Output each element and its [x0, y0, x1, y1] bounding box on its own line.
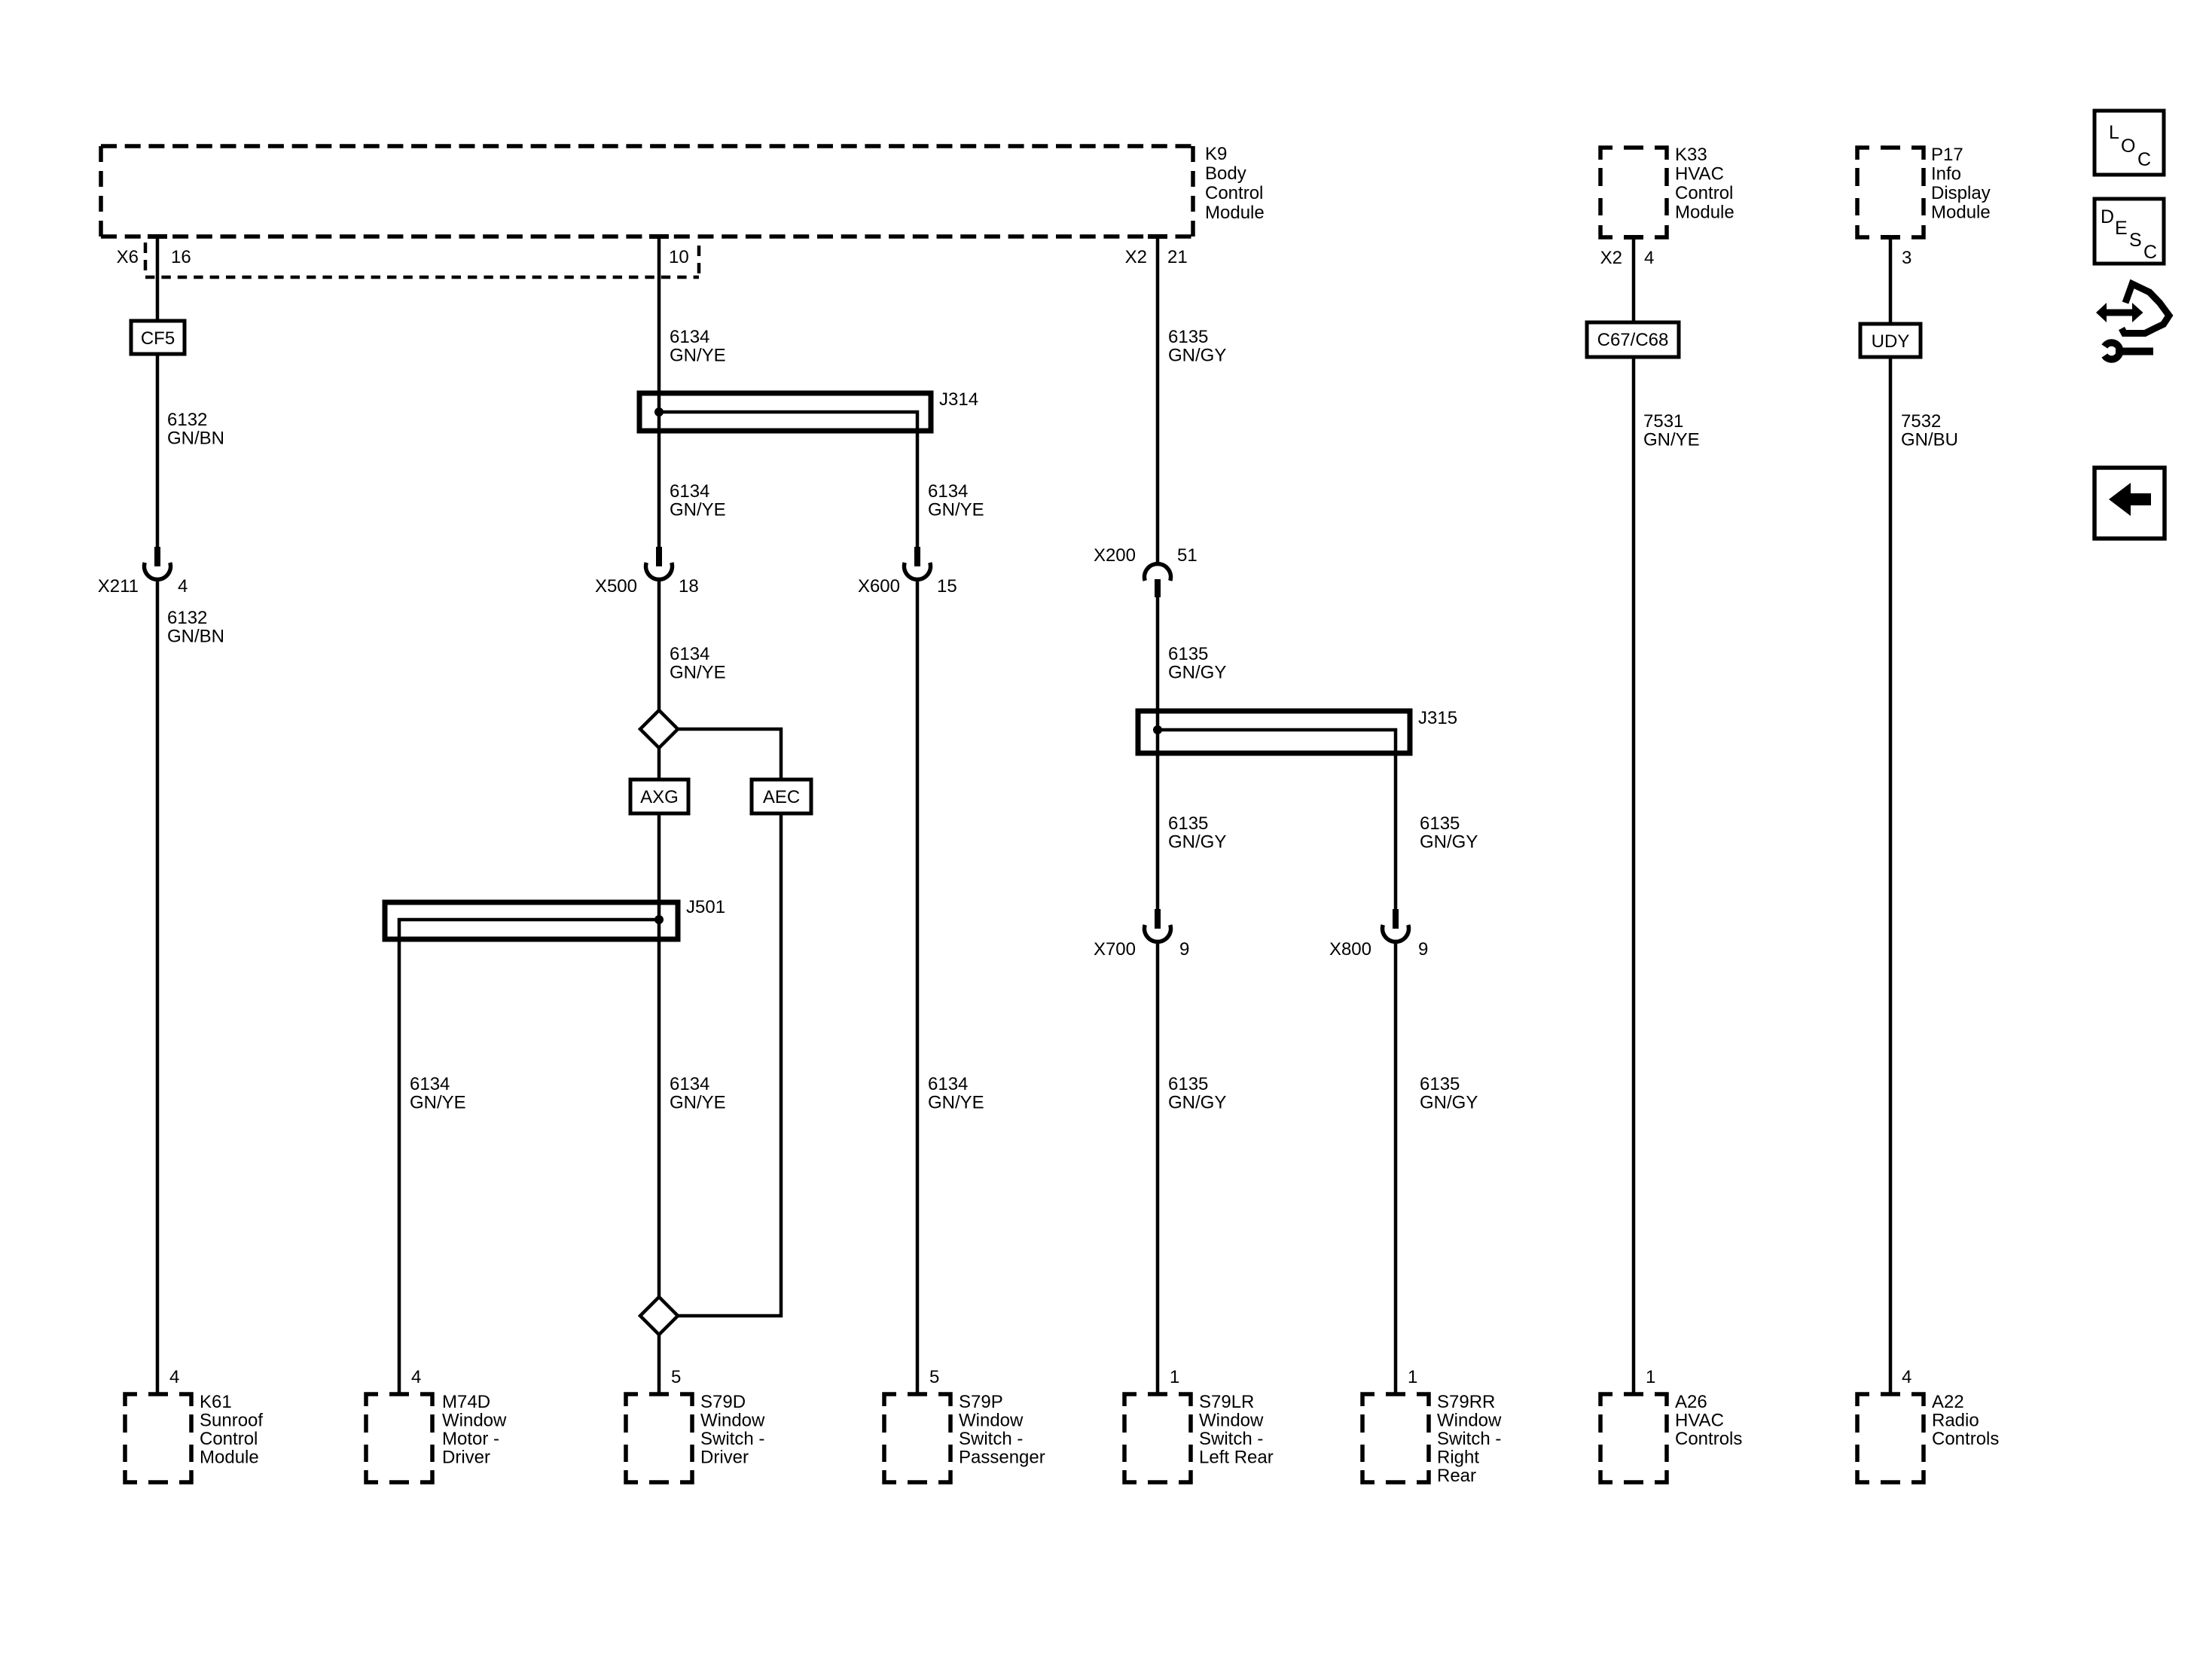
- connector X211: [145, 547, 171, 579]
- pin 4 label (M74D): [411, 1367, 421, 1387]
- svg-text:M74D: M74D: [442, 1392, 490, 1412]
- svg-text:10: 10: [669, 247, 689, 267]
- svg-text:Passenger: Passenger: [959, 1448, 1045, 1468]
- svg-text:GN/BU: GN/BU: [1901, 430, 1958, 450]
- module S79LR Window Switch Left Rear (dashed box): [1124, 1394, 1191, 1482]
- module A26 HVAC Controls (dashed box): [1600, 1394, 1667, 1482]
- svg-text:4: 4: [411, 1367, 421, 1387]
- svg-text:21: 21: [1167, 247, 1188, 267]
- svg-text:6134: 6134: [928, 481, 968, 502]
- module K9 Body Control Module (dashed box): [101, 146, 1193, 236]
- pin 3 label (P17): [1902, 248, 1911, 268]
- svg-text:Sunroof: Sunroof: [200, 1411, 263, 1431]
- svg-text:GN/GY: GN/GY: [1168, 663, 1226, 683]
- label S79D: [700, 1392, 765, 1468]
- svg-text:6132: 6132: [167, 608, 207, 628]
- option box AEC: [752, 780, 811, 813]
- svg-text:Window: Window: [442, 1411, 507, 1431]
- svg-text:1: 1: [1170, 1367, 1179, 1387]
- wire 6134 J314 to X500: [657, 412, 661, 547]
- svg-text:6132: 6132: [167, 410, 207, 430]
- label 6135 GN/GY (row D col4): [1168, 813, 1226, 853]
- svg-text:6134: 6134: [670, 1074, 709, 1094]
- splice J315 box: [1138, 711, 1410, 753]
- svg-text:Control: Control: [1205, 183, 1263, 203]
- svg-text:GN/BN: GN/BN: [167, 627, 224, 647]
- branch diamond lower: [640, 1297, 678, 1335]
- svg-text:15: 15: [937, 576, 957, 597]
- module A22 Radio Controls (dashed box): [1857, 1394, 1924, 1482]
- svg-text:D: D: [2101, 206, 2114, 227]
- svg-text:Body: Body: [1205, 163, 1246, 184]
- pin 5 label (S79P): [929, 1367, 939, 1387]
- label X6: [117, 247, 139, 267]
- wire 6135 J315 to X800: [1394, 753, 1398, 909]
- connector X500: [646, 547, 673, 579]
- junction dot J315: [1153, 725, 1162, 734]
- svg-text:1: 1: [1408, 1367, 1417, 1387]
- label 6134 GN/YE (row B col3): [928, 481, 984, 520]
- svg-text:GN/YE: GN/YE: [670, 1093, 726, 1113]
- label 6132 GN/BN (lower): [167, 608, 224, 647]
- label 6134 GN/YE (row E col3): [928, 1074, 984, 1113]
- svg-text:4: 4: [169, 1367, 179, 1387]
- svg-text:5: 5: [671, 1367, 681, 1387]
- svg-text:X6: X6: [117, 247, 139, 267]
- svg-text:Motor -: Motor -: [442, 1429, 499, 1449]
- wire 7531 C67/C68 to A26: [1632, 357, 1636, 1394]
- label X700: [1094, 939, 1189, 960]
- svg-text:9: 9: [1179, 939, 1189, 960]
- svg-text:Module: Module: [1675, 203, 1735, 223]
- module M74D Window Motor Driver (dashed box): [366, 1394, 432, 1482]
- wire 6135 X700 to S79LR: [1156, 942, 1160, 1394]
- label A22: [1932, 1392, 1999, 1449]
- junction dot J314: [654, 407, 664, 417]
- svg-text:Window: Window: [959, 1411, 1024, 1431]
- svg-text:GN/GY: GN/GY: [1168, 346, 1226, 366]
- svg-text:X800: X800: [1329, 939, 1371, 960]
- svg-text:7532: 7532: [1901, 411, 1941, 432]
- label X200: [1094, 545, 1198, 566]
- svg-text:E: E: [2115, 218, 2128, 239]
- svg-text:51: 51: [1177, 545, 1198, 566]
- wire diamond to AEC: [678, 729, 781, 780]
- pin 1 label (A26): [1646, 1367, 1655, 1387]
- svg-text:Module: Module: [200, 1448, 259, 1468]
- svg-text:5: 5: [929, 1367, 939, 1387]
- svg-text:Module: Module: [1931, 203, 1991, 223]
- label 6134 GN/YE (M74D): [410, 1074, 466, 1113]
- svg-text:S79LR: S79LR: [1199, 1392, 1254, 1412]
- svg-text:X211: X211: [98, 576, 139, 597]
- svg-text:9: 9: [1418, 939, 1428, 960]
- label X2 (K33): [1600, 248, 1622, 268]
- svg-text:6134: 6134: [670, 327, 709, 347]
- svg-text:6135: 6135: [1168, 644, 1208, 664]
- svg-text:1: 1: [1646, 1367, 1655, 1387]
- wire 6134 J314 to X600: [916, 431, 920, 547]
- svg-text:K9: K9: [1205, 144, 1227, 164]
- svg-text:J501: J501: [686, 897, 725, 917]
- label 6135 GN/GY (row E col5): [1420, 1074, 1478, 1113]
- svg-text:C67/C68: C67/C68: [1597, 330, 1669, 350]
- svg-text:Driver: Driver: [700, 1448, 749, 1468]
- label K33: [1675, 145, 1735, 223]
- svg-text:6134: 6134: [670, 644, 709, 664]
- fuse CF5 box: [131, 321, 185, 354]
- label 6134 GN/YE (row A): [670, 327, 726, 366]
- svg-text:X700: X700: [1094, 939, 1136, 960]
- label K61: [200, 1392, 263, 1468]
- svg-text:6134: 6134: [928, 1074, 968, 1094]
- label K9: [1205, 144, 1265, 223]
- wire 6135 K9 pin21 to X200: [1148, 236, 1167, 563]
- pin 5 label (S79D): [671, 1367, 681, 1387]
- network UDY box: [1860, 324, 1921, 357]
- svg-text:AXG: AXG: [640, 787, 679, 807]
- svg-text:S79P: S79P: [959, 1392, 1003, 1412]
- label 7532 GN/BU: [1901, 411, 1958, 450]
- wire 6132 CF5 to X211: [156, 354, 160, 547]
- network C67/C68 box: [1587, 322, 1679, 357]
- label 6135 GN/GY (row C col4): [1168, 644, 1226, 683]
- svg-text:AEC: AEC: [763, 787, 800, 807]
- label 6134 GN/YE (row B col2): [670, 481, 726, 520]
- svg-text:Window: Window: [1437, 1411, 1502, 1431]
- label X211: [98, 576, 188, 597]
- svg-text:Controls: Controls: [1675, 1429, 1742, 1449]
- module S79P Window Switch Passenger (dashed box): [884, 1394, 950, 1482]
- svg-text:J314: J314: [939, 389, 978, 410]
- svg-text:C: C: [2143, 242, 2157, 263]
- svg-text:CF5: CF5: [141, 328, 175, 349]
- svg-text:P17: P17: [1931, 145, 1963, 165]
- wire 6132 K9 pin16 to CF5: [148, 236, 167, 321]
- wire 6134 X600 to S79P: [916, 580, 920, 1394]
- svg-text:6134: 6134: [410, 1074, 450, 1094]
- svg-text:Window: Window: [700, 1411, 765, 1431]
- svg-text:Switch -: Switch -: [1199, 1429, 1263, 1449]
- svg-text:Controls: Controls: [1932, 1429, 1999, 1449]
- svg-text:Control: Control: [1675, 183, 1733, 203]
- svg-text:GN/YE: GN/YE: [670, 500, 726, 520]
- svg-text:Window: Window: [1199, 1411, 1264, 1431]
- svg-text:GN/GY: GN/GY: [1168, 832, 1226, 853]
- icon LOC box: [2095, 111, 2164, 175]
- svg-text:GN/GY: GN/GY: [1420, 1093, 1478, 1113]
- label P17: [1931, 145, 1991, 223]
- svg-text:HVAC: HVAC: [1675, 1411, 1724, 1431]
- label J314: [939, 389, 978, 410]
- label X600: [858, 576, 957, 597]
- pin 4 label (K33): [1644, 248, 1654, 268]
- label 7531 GN/YE: [1643, 411, 1700, 450]
- label S79RR: [1437, 1392, 1502, 1486]
- label X2 (K9): [1125, 247, 1147, 267]
- svg-text:GN/YE: GN/YE: [928, 500, 984, 520]
- label S79P: [959, 1392, 1045, 1468]
- pin 1 label (S79LR): [1170, 1367, 1179, 1387]
- svg-text:J315: J315: [1418, 708, 1457, 728]
- label 6134 GN/YE (row C col2): [670, 644, 726, 683]
- svg-text:K33: K33: [1675, 145, 1707, 165]
- svg-text:Display: Display: [1931, 183, 1991, 203]
- label 6135 GN/GY (row D col5): [1420, 813, 1478, 853]
- pin 4 label (A22): [1902, 1367, 1911, 1387]
- svg-text:X500: X500: [595, 576, 637, 597]
- wire 6132 X211 to K61: [156, 580, 160, 1394]
- svg-text:L: L: [2109, 122, 2119, 143]
- connector X700: [1145, 909, 1171, 941]
- label 6134 GN/YE (row E col2): [670, 1074, 726, 1113]
- svg-text:S79D: S79D: [700, 1392, 746, 1412]
- label J501: [686, 897, 725, 917]
- svg-text:4: 4: [1644, 248, 1654, 268]
- svg-text:GN/YE: GN/YE: [410, 1093, 466, 1113]
- icon back arrow box: [2095, 468, 2165, 539]
- wire 7532 UDY to A22: [1889, 357, 1893, 1394]
- pin 21 label: [1167, 247, 1188, 267]
- svg-text:K61: K61: [200, 1392, 232, 1412]
- svg-text:GN/YE: GN/YE: [928, 1093, 984, 1113]
- label S79LR: [1199, 1392, 1274, 1468]
- wire 6134 K9 pin10 to J314: [649, 236, 669, 412]
- svg-text:Module: Module: [1205, 203, 1265, 223]
- svg-text:S: S: [2129, 230, 2142, 251]
- label 6132 GN/BN (upper): [167, 410, 224, 449]
- wire diamond to S79D: [657, 1335, 661, 1394]
- wire 6134 X500 to diamond: [657, 580, 661, 710]
- svg-text:Switch -: Switch -: [1437, 1429, 1501, 1449]
- svg-text:6134: 6134: [670, 481, 709, 502]
- splice J314 box: [639, 393, 931, 431]
- svg-text:GN/BN: GN/BN: [167, 429, 224, 449]
- svg-text:6135: 6135: [1420, 1074, 1460, 1094]
- label X800: [1329, 939, 1428, 960]
- pin 10 label: [669, 247, 689, 267]
- label 6135 GN/GY (row A): [1168, 327, 1226, 366]
- svg-text:Radio: Radio: [1932, 1411, 1979, 1431]
- label 6135 GN/GY (row E col4): [1168, 1074, 1226, 1113]
- svg-text:4: 4: [178, 576, 188, 597]
- svg-text:Right: Right: [1437, 1448, 1479, 1468]
- svg-text:Info: Info: [1931, 164, 1961, 185]
- option box AXG: [630, 780, 688, 813]
- pin 4 label (K61): [169, 1367, 179, 1387]
- svg-text:GN/YE: GN/YE: [1643, 430, 1700, 450]
- svg-text:S79RR: S79RR: [1437, 1392, 1495, 1412]
- connector X6 boundary (dotted line): [145, 243, 699, 277]
- svg-text:GN/YE: GN/YE: [670, 663, 726, 683]
- module S79D Window Switch Driver (dashed box): [626, 1394, 692, 1482]
- junction dot J501: [654, 915, 664, 924]
- svg-text:6135: 6135: [1168, 813, 1208, 834]
- svg-text:GN/GY: GN/GY: [1168, 1093, 1226, 1113]
- label A26: [1675, 1392, 1742, 1449]
- icon harness repair (arrows and wrench): [2096, 284, 2169, 359]
- pin 16 label: [171, 247, 191, 267]
- pin 1 label (S79RR): [1408, 1367, 1417, 1387]
- connector X200 (inverted): [1145, 564, 1171, 597]
- svg-text:X2: X2: [1125, 247, 1147, 267]
- icon DESC box: [2095, 199, 2164, 264]
- module K33 HVAC Control Module (dashed box): [1600, 148, 1667, 237]
- wire K33 to C67/C68: [1624, 237, 1643, 322]
- svg-text:X600: X600: [858, 576, 900, 597]
- wire 6135 X800 to S79RR: [1394, 942, 1398, 1394]
- svg-text:X200: X200: [1094, 545, 1136, 566]
- svg-text:UDY: UDY: [1872, 331, 1910, 352]
- connector X600: [905, 547, 931, 579]
- wire diamond to AXG: [657, 748, 661, 780]
- wire 6135 J315 to X700: [1156, 730, 1160, 909]
- svg-text:C: C: [2137, 149, 2151, 170]
- label M74D: [442, 1392, 507, 1468]
- svg-text:Driver: Driver: [442, 1448, 490, 1468]
- splice J501 box: [385, 902, 678, 939]
- wire P17 to UDY: [1881, 237, 1900, 324]
- svg-text:Left Rear: Left Rear: [1199, 1448, 1274, 1468]
- wire AEC to lower diamond: [678, 813, 781, 1316]
- svg-text:O: O: [2121, 136, 2135, 157]
- label X500: [595, 576, 699, 597]
- connector X800: [1382, 909, 1408, 941]
- svg-text:Switch -: Switch -: [700, 1429, 764, 1449]
- svg-text:6135: 6135: [1420, 813, 1460, 834]
- label J315: [1418, 708, 1457, 728]
- svg-text:Control: Control: [200, 1429, 258, 1449]
- module P17 Info Display Module (dashed box): [1857, 148, 1924, 237]
- module S79RR Window Switch Right Rear (dashed box): [1362, 1394, 1429, 1482]
- svg-text:6135: 6135: [1168, 1074, 1208, 1094]
- svg-text:Rear: Rear: [1437, 1466, 1476, 1486]
- svg-text:7531: 7531: [1643, 411, 1683, 432]
- wire J501 to M74D: [398, 939, 401, 1394]
- svg-text:GN/YE: GN/YE: [670, 346, 726, 366]
- svg-text:6135: 6135: [1168, 327, 1208, 347]
- svg-text:GN/GY: GN/GY: [1420, 832, 1478, 853]
- svg-text:18: 18: [679, 576, 699, 597]
- svg-text:3: 3: [1902, 248, 1911, 268]
- branch diamond upper: [640, 710, 678, 748]
- svg-text:16: 16: [171, 247, 191, 267]
- svg-text:A26: A26: [1675, 1392, 1707, 1412]
- wire AXG through J501 to lower diamond: [657, 813, 661, 1297]
- svg-text:A22: A22: [1932, 1392, 1964, 1412]
- wire 6135 X200 to J315: [1156, 597, 1160, 730]
- svg-text:HVAC: HVAC: [1675, 164, 1724, 185]
- svg-text:X2: X2: [1600, 248, 1622, 268]
- module K61 Sunroof Control Module (dashed box): [125, 1394, 191, 1482]
- svg-text:4: 4: [1902, 1367, 1911, 1387]
- svg-text:Switch -: Switch -: [959, 1429, 1023, 1449]
